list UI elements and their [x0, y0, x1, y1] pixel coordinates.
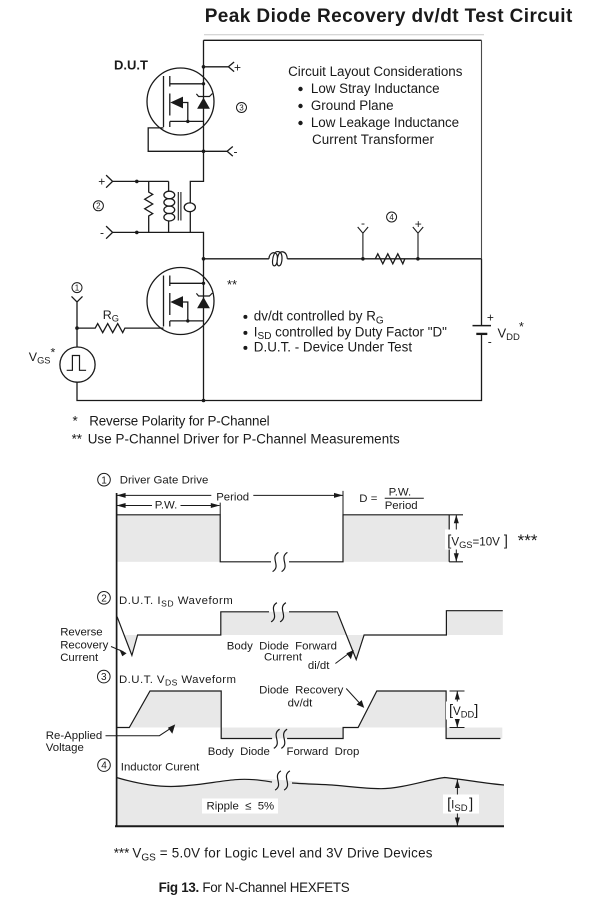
svg-text:Ground Plane: Ground Plane [311, 98, 394, 113]
svg-text:D.U.T. - Device Under Test: D.U.T. - Device Under Test [254, 340, 413, 355]
svg-text:4: 4 [389, 213, 394, 222]
svg-text:**: ** [227, 277, 237, 292]
svg-text:Current: Current [60, 652, 99, 664]
svg-text:P.W.: P.W. [155, 500, 178, 512]
svg-text:3: 3 [101, 672, 107, 683]
svg-text:Use P-Channel Driver for P-Cha: Use P-Channel Driver for P-Channel Measu… [88, 432, 400, 447]
svg-text:+: + [234, 60, 241, 74]
svg-text:[VGS=10V ]: [VGS=10V ] [447, 534, 508, 551]
svg-text:-: - [488, 334, 492, 348]
svg-text:D.U.T. VDS Waveform: D.U.T. VDS Waveform [119, 674, 236, 688]
svg-text:Inductor Curent: Inductor Curent [121, 762, 200, 774]
svg-text:**: ** [72, 432, 82, 447]
svg-text:***: *** [114, 846, 130, 861]
svg-text:Voltage: Voltage [46, 742, 84, 754]
svg-text:Body Diode: Body Diode [208, 746, 270, 758]
svg-text:Re-Applied: Re-Applied [46, 730, 102, 742]
svg-text:Period: Period [385, 500, 418, 512]
svg-text:***: *** [518, 531, 538, 550]
svg-text:1: 1 [75, 284, 80, 293]
svg-text:Driver Gate Drive: Driver Gate Drive [120, 475, 209, 487]
svg-text:Reverse Polarity for P-Channel: Reverse Polarity for P-Channel [89, 414, 269, 429]
svg-text:2: 2 [96, 202, 101, 211]
svg-text:P.W.: P.W. [389, 487, 412, 499]
svg-text:*: * [73, 414, 78, 429]
svg-text:Recovery: Recovery [60, 640, 108, 652]
svg-text:Current: Current [264, 651, 303, 663]
svg-text:1: 1 [101, 475, 107, 486]
svg-text:+: + [98, 174, 105, 188]
svg-text:dv/dt: dv/dt [288, 698, 314, 710]
svg-text:D.U.T: D.U.T [114, 58, 148, 73]
svg-text:2: 2 [101, 593, 107, 604]
svg-text:+: + [487, 311, 494, 325]
svg-text:di/dt: di/dt [308, 660, 330, 672]
svg-text:+: + [415, 217, 422, 231]
svg-text:3: 3 [239, 103, 244, 112]
svg-text:Current Transformer: Current Transformer [312, 132, 435, 147]
svg-text:Low Stray Inductance: Low Stray Inductance [311, 81, 440, 96]
svg-text:Diode Recovery: Diode Recovery [259, 685, 344, 697]
svg-text:D.U.T. ISD Waveform: D.U.T. ISD Waveform [119, 595, 233, 609]
svg-text:Low Leakage Inductance: Low Leakage Inductance [311, 115, 459, 130]
svg-text:Forward Drop: Forward Drop [287, 746, 360, 758]
svg-text:4: 4 [101, 761, 107, 772]
svg-text:-: - [234, 145, 238, 159]
svg-text:D =: D = [359, 493, 377, 505]
svg-text:-: - [100, 226, 104, 240]
svg-text:Peak Diode Recovery dv/dt Test: Peak Diode Recovery dv/dt Test Circuit [205, 6, 573, 27]
svg-text:Reverse: Reverse [60, 627, 102, 639]
svg-text:Fig 13. For N-Channel HEXFETS: Fig 13. For N-Channel HEXFETS [159, 880, 350, 895]
svg-text:-: - [361, 216, 365, 230]
svg-text:Period: Period [216, 492, 249, 504]
svg-text:Ripple ≤ 5%: Ripple ≤ 5% [207, 801, 275, 813]
svg-text:Circuit Layout Considerations: Circuit Layout Considerations [288, 64, 463, 79]
